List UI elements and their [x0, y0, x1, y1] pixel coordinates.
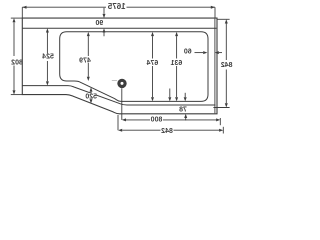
- 842 right dim (mirrored left): [217, 18, 230, 20]
- rim inner bottom polyline (c2 bottom): [22, 86, 215, 105]
- 520 dim: [85, 93, 96, 99]
- 1675 top dim: [127, 6, 216, 8]
- svg-text:524: 524: [42, 54, 54, 61]
- svg-text:800: 800: [151, 117, 163, 124]
- svg-text:60: 60: [184, 49, 192, 56]
- 631 dim: [176, 36, 178, 58]
- 802 left dim (mirrored right): [11, 17, 23, 19]
- 90 dim: [103, 8, 105, 14]
- outer tub shell: [22, 18, 217, 114]
- 479 dim: [87, 36, 89, 56]
- rim inner top line (c2 top): [22, 27, 216, 29]
- 842 bottom dim: [222, 127, 224, 134]
- svg-text:842: 842: [221, 62, 233, 69]
- svg-text:674: 674: [146, 60, 158, 67]
- svg-text:520: 520: [85, 93, 97, 100]
- 60 dim: [219, 52, 222, 54]
- 78 dim: [184, 93, 186, 97]
- drain ring: [119, 80, 125, 86]
- 674 dim: [152, 36, 154, 58]
- outer left second line: [214, 19, 216, 114]
- svg-text:90: 90: [95, 20, 103, 27]
- 800 bottom dim: [219, 118, 221, 125]
- extra arrow stem: [169, 89, 171, 98]
- svg-text:802: 802: [11, 60, 23, 67]
- drain extension line: [121, 88, 123, 120]
- faint dash right of drain (mirrored left): [112, 80, 117, 82]
- svg-text:78: 78: [179, 107, 187, 114]
- svg-text:1675: 1675: [107, 2, 125, 11]
- 524 dim: [46, 33, 48, 54]
- svg-text:842: 842: [161, 128, 173, 135]
- svg-text:479: 479: [79, 57, 91, 64]
- floor contour: [60, 32, 208, 102]
- svg-text:631: 631: [170, 60, 182, 67]
